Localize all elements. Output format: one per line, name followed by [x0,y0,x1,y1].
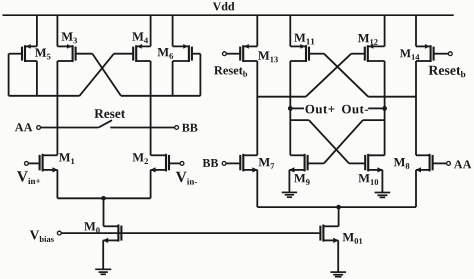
wire M5 gate-drain loop (left side) [8,54,10,96]
wire stub into M10 gate [349,162,364,164]
wire M6 gate stub right [192,53,201,55]
wire M3 gate diagonal to node B [92,54,121,96]
wire M12 gate stub [351,53,365,55]
label M1 [59,153,74,164]
transistor M0 (tail current NMOS) [103,225,122,244]
label M4 [132,32,148,43]
node A rail (drains of M5,M3,M1) [9,95,80,97]
label M14 [400,49,419,59]
transistor M2 (input NMOS) [150,154,180,173]
net Vdd: top power rail [3,14,454,16]
wire Out+ tap [293,107,305,109]
label M12 [358,34,378,45]
label M8 [394,158,410,169]
wire M8 source down to right tail [415,170,417,207]
label BB (left terminal) [182,124,197,132]
transistor M14 (reset PMOS) [416,44,448,62]
label Reset_b left [214,66,247,76]
wire Vdd to M3 source [56,15,58,46]
wire Out- tap [368,107,382,109]
terminal Reset_b left circle [223,52,227,56]
label BB right [203,159,218,167]
label Out- [342,105,368,114]
label M13 [258,51,278,62]
transistor M4 (cross-coupled PMOS) [133,44,150,62]
terminal BB circle [175,126,179,130]
wire M01 source down to ground [337,240,339,271]
wire M12 gate diagonal to Out+ rail [306,54,351,97]
junction dot tail node [101,196,106,201]
tail rail of right pair [257,206,416,208]
transistor M13 (reset PMOS) [226,44,257,62]
wire M4 gate diagonal to node A [80,54,114,96]
ground below M9 [282,192,297,197]
terminal BB right circle [222,162,226,166]
label Reset [94,109,125,118]
label Reset_b right [429,66,466,78]
transistor M7 (input NMOS) [226,154,258,173]
ground below M0 [95,269,111,274]
wire Vdd to M13 source [256,15,258,46]
wire Vdd to M11 source [289,15,291,46]
node Out+ junction dot [288,106,293,111]
wire M13 drain / M7 drain column [256,61,258,155]
label M2 [133,153,148,164]
wire M3 gate stub [76,53,93,55]
wire Vdd to M14 source [415,15,417,46]
transistor M8 (input NMOS) [416,154,447,173]
wire right tail down to M01 drain [338,207,340,226]
label AA right [454,160,471,168]
wire stub into M9 gate [308,162,324,164]
wire Vbias line from terminal to M0 and M01 gates [61,232,319,234]
wire M6 gate-drain loop (right side) [199,54,201,96]
wire M5 drain down to node A [36,61,38,96]
wire M4 gate stub [114,53,133,55]
wire M9 source to ground [288,170,290,192]
tail rail of input pair [57,197,150,199]
wire M0 source down to ground [102,240,104,268]
ground below M10 [375,193,391,198]
terminal Vbias circle [57,231,61,235]
label M5 [35,49,51,60]
wire M7 source down to right tail [256,170,258,207]
wire Vdd to M6 source [172,15,174,46]
wire reset switch to BB [110,127,175,129]
label M7 [259,158,275,169]
label Vdd [213,2,235,11]
wire M10 source to ground [381,170,383,192]
wire Vdd to M4 source [150,15,152,46]
wire M11 gate diagonal to Out- rail [324,54,368,97]
wire Vdd to M12 source [384,15,386,46]
Out+ rail (M13 drain to diagonal) [257,96,306,98]
label M11 [294,34,314,45]
wire Out+ column (M11 drain to M9 drain) [289,61,291,155]
label M3 [62,32,78,43]
wire Out- column (M12 drain to M10 drain) [384,61,386,155]
transistor M12 (cross-coupled PMOS) [365,44,385,62]
reset switch arm [99,120,113,127]
wire M1 source down to tail [56,170,58,198]
transistor M5 (diode-connected PMOS) [9,44,37,62]
wire diagonal Out+ to M10 gate [309,120,349,163]
wire Out- stub to M9 gate diagonal [363,119,385,121]
label Vbias [30,230,54,242]
transistor M6 (diode-connected PMOS) [173,44,192,62]
label M10 [358,174,378,185]
ground below M01 [330,272,346,277]
terminal Reset_b right circle [448,52,452,56]
label M6 [158,48,174,59]
wire Out+ stub to M10 gate diagonal [290,119,309,121]
transistor M3 (cross-coupled PMOS) [57,44,75,62]
wire AA to reset switch [41,127,99,129]
transistor M01 (tail current NMOS) [320,225,338,244]
transistor M9 (latch NMOS) [289,154,308,173]
Out- rail (diagonal to M14 drain) [368,96,416,98]
junction dot right tail node [336,205,341,210]
terminal Vin- circle [180,162,184,166]
transistor M1 (input NMOS) [28,154,58,173]
terminal AA circle [37,126,41,130]
wire M14 drain / M8 drain column [415,61,417,155]
wire M6 drain down to node B [172,61,174,96]
label M9 [294,174,310,185]
wire M4 drain / M2 drain column [150,61,152,155]
label Out+ [305,105,334,114]
wire M11 gate stub [309,53,324,55]
terminal AA right circle [447,162,451,166]
label M0 [84,222,100,233]
node Out- junction dot [382,106,387,111]
wire Vdd to M5 source [36,15,38,46]
label M01 [343,233,363,244]
terminal Vin+ circle [25,162,29,166]
transistor M11 (cross-coupled PMOS) [290,44,309,62]
transistor M10 (latch NMOS) [365,154,384,173]
node B rail (drains of M4,M6,M2) [121,95,200,97]
label Vin- [176,172,197,185]
label AA (left terminal) [15,123,32,131]
label Vin+ [17,171,40,184]
wire diagonal Out- to M9 gate [324,120,363,163]
wire M3 drain / M1 drain column [56,61,58,155]
wire tail node down to M0 drain [103,198,105,226]
wire M2 source down to tail [150,170,152,198]
